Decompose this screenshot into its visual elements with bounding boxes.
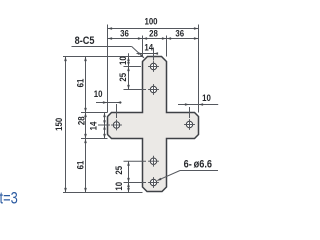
svg-text:61: 61: [75, 161, 86, 170]
svg-text:61: 61: [75, 79, 86, 88]
svg-text:14: 14: [144, 42, 153, 53]
svg-text:t=3: t=3: [0, 190, 18, 208]
svg-text:28: 28: [149, 28, 158, 39]
svg-text:25: 25: [117, 73, 128, 82]
svg-text:8-C5: 8-C5: [75, 35, 95, 47]
svg-text:36: 36: [120, 28, 129, 39]
svg-text:36: 36: [175, 28, 184, 39]
svg-text:10: 10: [117, 56, 128, 65]
svg-text:25: 25: [113, 166, 124, 175]
svg-text:100: 100: [144, 16, 157, 27]
svg-text:150: 150: [53, 118, 64, 131]
svg-text:14: 14: [88, 122, 99, 131]
svg-text:10: 10: [113, 182, 124, 191]
svg-text:28: 28: [76, 116, 87, 125]
svg-text:10: 10: [94, 88, 103, 99]
svg-text:6- ø6.6: 6- ø6.6: [184, 159, 213, 171]
svg-text:10: 10: [202, 92, 211, 103]
